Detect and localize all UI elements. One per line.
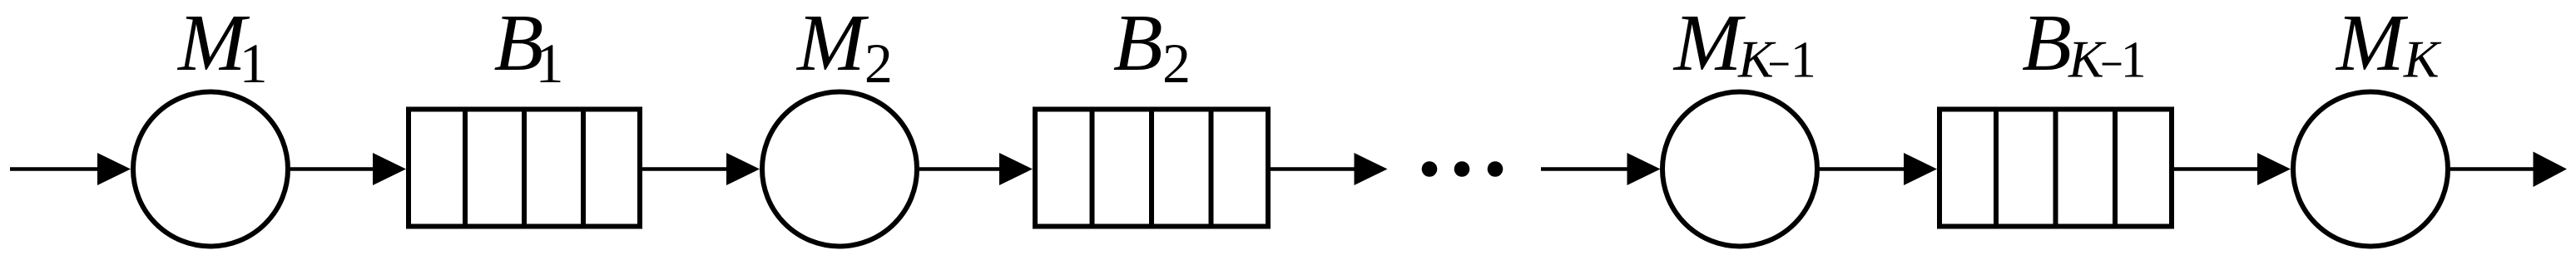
svg-text:K: K bbox=[2068, 30, 2107, 89]
svg-text:1: 1 bbox=[1791, 32, 1816, 89]
svg-text:M: M bbox=[2335, 0, 2409, 88]
svg-text:1: 1 bbox=[536, 32, 564, 95]
svg-text:M: M bbox=[795, 0, 869, 88]
svg-text:K: K bbox=[1737, 30, 1776, 89]
svg-text:2: 2 bbox=[864, 32, 893, 95]
svg-text:B: B bbox=[2022, 0, 2072, 88]
svg-text:M: M bbox=[1672, 0, 1746, 88]
svg-text:2: 2 bbox=[1162, 32, 1191, 95]
svg-text:K: K bbox=[2403, 30, 2442, 89]
svg-text:1: 1 bbox=[2121, 32, 2147, 89]
svg-text:1: 1 bbox=[240, 32, 268, 95]
svg-text:B: B bbox=[1113, 0, 1163, 88]
